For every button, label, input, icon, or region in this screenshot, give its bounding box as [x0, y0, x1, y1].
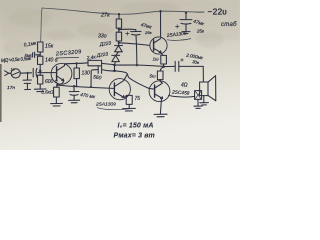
ground under C3	[69, 100, 80, 103]
ground under speaker	[200, 103, 209, 105]
wire: feedback tap to C6	[103, 70, 115, 71]
svg-text:560: 560	[93, 75, 102, 82]
wire: node to R5	[76, 64, 78, 68]
wire: speaker drop	[202, 66, 204, 82]
node: bootstrap junction	[118, 29, 120, 31]
ground under fuse	[194, 106, 202, 108]
transistor Q3 collector	[115, 75, 127, 87]
svg-text:17н: 17н	[7, 85, 15, 91]
resistor R11 5w box	[157, 71, 163, 80]
svg-text:стаб: стаб	[221, 22, 237, 28]
wire: fuse to ground	[197, 99, 199, 105]
resistor R7 27k box	[116, 19, 121, 28]
node: R5 bottom junction	[75, 85, 77, 87]
paper mottle blobs	[3, 2, 224, 56]
capacitor C5 polarity +	[176, 25, 180, 28]
wire: node to Q2 base	[119, 43, 150, 46]
node: Q2 base junction	[118, 42, 120, 44]
fuse box X mark	[195, 91, 200, 98]
transistor Q2 emitter with arrow	[154, 48, 161, 52]
resistor R4 3,5k box	[54, 87, 60, 97]
wire: top supply rail	[42, 8, 204, 14]
wire: bootstrap branch to C4	[119, 28, 136, 30]
ground under Q4	[154, 114, 167, 117]
svg-text:33о: 33о	[98, 34, 107, 40]
wire: diode column from rail	[118, 14, 120, 19]
speaker LS1 horn	[208, 76, 216, 101]
svg-text:75: 75	[135, 96, 141, 102]
fuse box F1	[195, 91, 202, 100]
wire: R9 to ground	[128, 104, 130, 108]
transistor Q4 2SC458 circle	[149, 81, 170, 102]
node: output node left	[113, 64, 116, 67]
svg-text:4Ω: 4Ω	[181, 83, 188, 89]
wire: speaker to ground	[203, 96, 205, 103]
svg-text:130: 130	[82, 71, 91, 77]
svg-text:15к: 15к	[45, 44, 54, 50]
svg-text:5мк: 5мк	[25, 53, 33, 58]
wire: R5 to emitter rail	[76, 79, 78, 86]
wire: R7 to bootstrap node	[118, 28, 120, 32]
transistor Q4 emitter with arrow	[155, 94, 163, 99]
label 2SC3209 underline	[56, 56, 79, 59]
resistor R1 15k box	[38, 42, 43, 52]
transistor Q3 emitter with arrow	[115, 92, 124, 97]
ground under R9	[123, 108, 136, 111]
svg-text:Pмах= 3 вт: Pмах= 3 вт	[114, 133, 155, 140]
wire: C1 to Q1 base	[38, 72, 57, 74]
capacitor small bypass at bias node	[33, 52, 41, 57]
paper left edge dark streak	[0, 64, 2, 122]
wire: output node to feedback tap	[114, 65, 116, 71]
ground under R3	[34, 89, 46, 92]
capacitor C1 coupling plates	[33, 68, 37, 77]
wire: Q1 emitter down	[57, 81, 63, 85]
svg-text:5ω: 5ω	[150, 74, 157, 79]
wire: Q3 emitter to R9	[124, 96, 128, 98]
node: rail junction at diode column	[118, 13, 120, 15]
wire: R6 to output node	[102, 63, 115, 64]
wire: R11 to Q4 collector	[159, 80, 161, 81]
node: emitter junction	[56, 84, 58, 86]
transistor Q1 collector	[57, 64, 65, 71]
node: collector junction for R5	[75, 62, 77, 64]
svg-text:−22ʋ: −22ʋ	[208, 7, 228, 17]
wire: emitter rail to Q3 base	[57, 85, 113, 88]
wire: Q1 collector rail	[65, 63, 88, 64]
transistor Q1 emitter with arrow	[57, 76, 64, 81]
wire: Q2 collector to rail	[160, 11, 162, 37]
wire: D2 to output node	[114, 62, 117, 65]
resistor R3 600 box	[38, 75, 43, 84]
capacitor C5 plates	[180, 20, 192, 24]
wire: C6 to Q3 base node	[91, 70, 98, 87]
capacitor C5 47мк filter cap stub	[185, 13, 187, 19]
ground under C2	[25, 88, 31, 90]
wire: R1 to node	[39, 52, 41, 56]
node: base bias junction	[39, 69, 42, 72]
wire: C4 down to output node	[135, 35, 138, 65]
capacitor C4 polarity +	[126, 32, 129, 35]
transistor Q1 base bar	[56, 67, 58, 81]
paper shading top	[0, 0, 240, 40]
wire: Q4 side to fuse box	[169, 95, 195, 97]
ground under C5	[182, 32, 190, 34]
wire: C3 to ground	[73, 95, 75, 100]
wire: left vertical drop from rail	[41, 9, 42, 43]
wire: D1 to D2	[116, 52, 118, 55]
svg-text:3,5кΩ: 3,5кΩ	[41, 90, 54, 96]
transistor Q3 2SA1309 circle	[109, 79, 130, 100]
wire: node to R3	[39, 71, 41, 76]
resistor R8 330 box	[116, 32, 121, 41]
label 2SA1309 driver underline swirl	[97, 108, 133, 110]
transistor Q2 2SA1309 circle	[150, 37, 167, 54]
wire: microphone to node	[20, 72, 31, 74]
svg-text:1ω: 1ω	[153, 57, 160, 62]
wire: terminal to microphone	[9, 72, 11, 74]
ground under R4	[51, 103, 63, 106]
wire: diagonal to Q4 base	[149, 87, 155, 90]
svg-text:25в: 25в	[196, 29, 205, 34]
microphone M1 circle	[11, 69, 20, 78]
paper background	[0, 0, 240, 150]
transistor Q4 base bar	[154, 85, 156, 97]
svg-text:2SA1309: 2SA1309	[95, 102, 116, 108]
svg-text:27к: 27к	[100, 13, 110, 19]
capacitor C2 input shunt stub	[27, 74, 29, 80]
capacitor C6 560 plates	[98, 66, 101, 73]
wire: rail dash to -22в	[197, 11, 204, 13]
wire: output junction to R11	[160, 67, 163, 71]
wire: C2 to ground	[26, 84, 28, 89]
capacitor C4 47мк bootstrap stub	[135, 30, 137, 32]
wire: C7 to speaker	[179, 65, 203, 67]
transistor Q2 collector	[154, 39, 161, 43]
node: rail junction at Q2 collector	[159, 10, 161, 12]
resistor R5 130 box	[74, 68, 79, 79]
capacitor C3 plates	[69, 92, 79, 96]
resistor R10 1w box	[161, 55, 167, 64]
wire: emitter to R4	[56, 85, 58, 87]
input terminal arrow	[5, 71, 9, 76]
wire: feedback tap to Q4 base diagonal	[115, 71, 149, 89]
svg-text:600 α: 600 α	[45, 79, 58, 85]
capacitor C7 polarity +	[181, 59, 184, 62]
node: input junction	[27, 72, 29, 74]
wire: R4 to ground	[55, 97, 57, 103]
transistor Q4 collector	[155, 81, 163, 88]
svg-text:I₀= 150 мА: I₀= 150 мА	[118, 123, 154, 130]
capacitor C4 plates	[131, 31, 141, 35]
resistor R2 140 box	[38, 56, 43, 64]
resistor R9 75 box	[126, 95, 132, 104]
node: bootstrap tap on output rail	[136, 64, 139, 67]
transistor Q3 base bar	[113, 83, 115, 96]
transistor Q1 2SC3209 circle	[51, 63, 72, 84]
node: feedback tap	[113, 70, 116, 73]
wire: R8 to diode node	[118, 41, 120, 43]
transistor Q2 base bar	[153, 40, 155, 51]
label 2SA1309 upper underline	[167, 39, 191, 41]
microphone inner stroke	[13, 72, 19, 75]
wire: Q4 emitter to ground	[160, 99, 161, 114]
wire: cap C5 to ground	[185, 24, 187, 31]
node: 470мк junction	[73, 85, 75, 87]
capacitor C2 plates	[23, 80, 31, 83]
resistor R6 2,4k box horizontal	[88, 60, 102, 65]
diode D1 Д223	[115, 43, 123, 52]
node: rail junction at filter cap	[185, 12, 187, 14]
speaker LS1 box	[200, 82, 208, 96]
wire: Q2 emitter to R10	[161, 53, 163, 56]
node: C6 bottom junction	[90, 86, 92, 88]
wire: R10 to output rail	[163, 64, 165, 66]
svg-text:1в: 1в	[11, 68, 15, 72]
node: output rail junction	[162, 65, 165, 68]
diode D2 Д223	[112, 55, 120, 61]
wire: R2 to base node	[39, 64, 41, 70]
svg-text:25в: 25в	[144, 30, 152, 35]
svg-text:140 α: 140 α	[45, 58, 58, 64]
capacitor C7 2000мк output plates	[164, 61, 179, 71]
wire: R3 to ground	[39, 84, 41, 89]
wire: output node rail	[115, 65, 164, 66]
capacitor C3 470мк stub	[73, 86, 75, 91]
